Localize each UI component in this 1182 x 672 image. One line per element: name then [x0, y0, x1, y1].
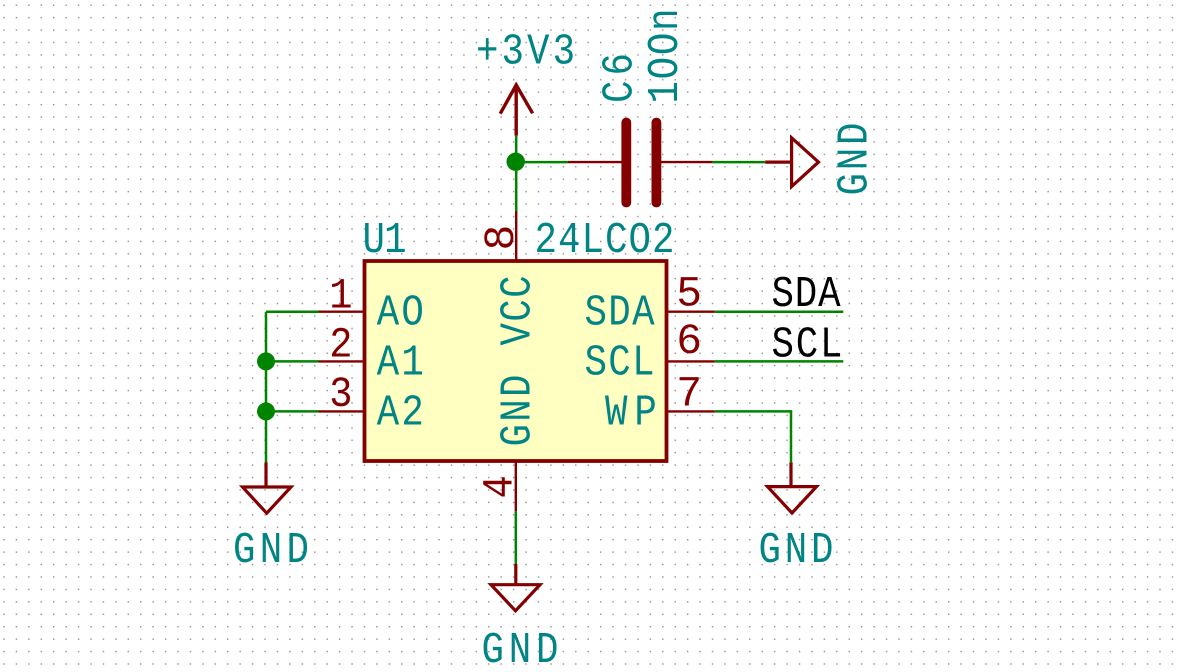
- svg-text:2: 2: [329, 321, 352, 370]
- svg-text:GND: GND: [831, 122, 881, 195]
- svg-text:GND: GND: [482, 626, 559, 672]
- svg-text:SCL: SCL: [772, 320, 843, 370]
- svg-text:4: 4: [476, 475, 525, 498]
- svg-text:3: 3: [329, 370, 352, 419]
- svg-text:1: 1: [329, 272, 352, 321]
- svg-text:GND: GND: [494, 375, 544, 447]
- svg-text:GND: GND: [233, 526, 309, 576]
- svg-text:6: 6: [676, 317, 702, 366]
- svg-text:5: 5: [676, 270, 702, 319]
- svg-text:SCL: SCL: [585, 339, 655, 389]
- svg-text:7: 7: [676, 370, 702, 419]
- svg-text:SDA: SDA: [585, 289, 656, 339]
- svg-text:VCC: VCC: [494, 275, 544, 345]
- svg-text:U1: U1: [363, 216, 407, 266]
- svg-text:GND: GND: [759, 526, 834, 576]
- svg-text:8: 8: [477, 225, 526, 251]
- svg-text:SDA: SDA: [772, 270, 842, 320]
- svg-text:24LCO2: 24LCO2: [535, 216, 675, 266]
